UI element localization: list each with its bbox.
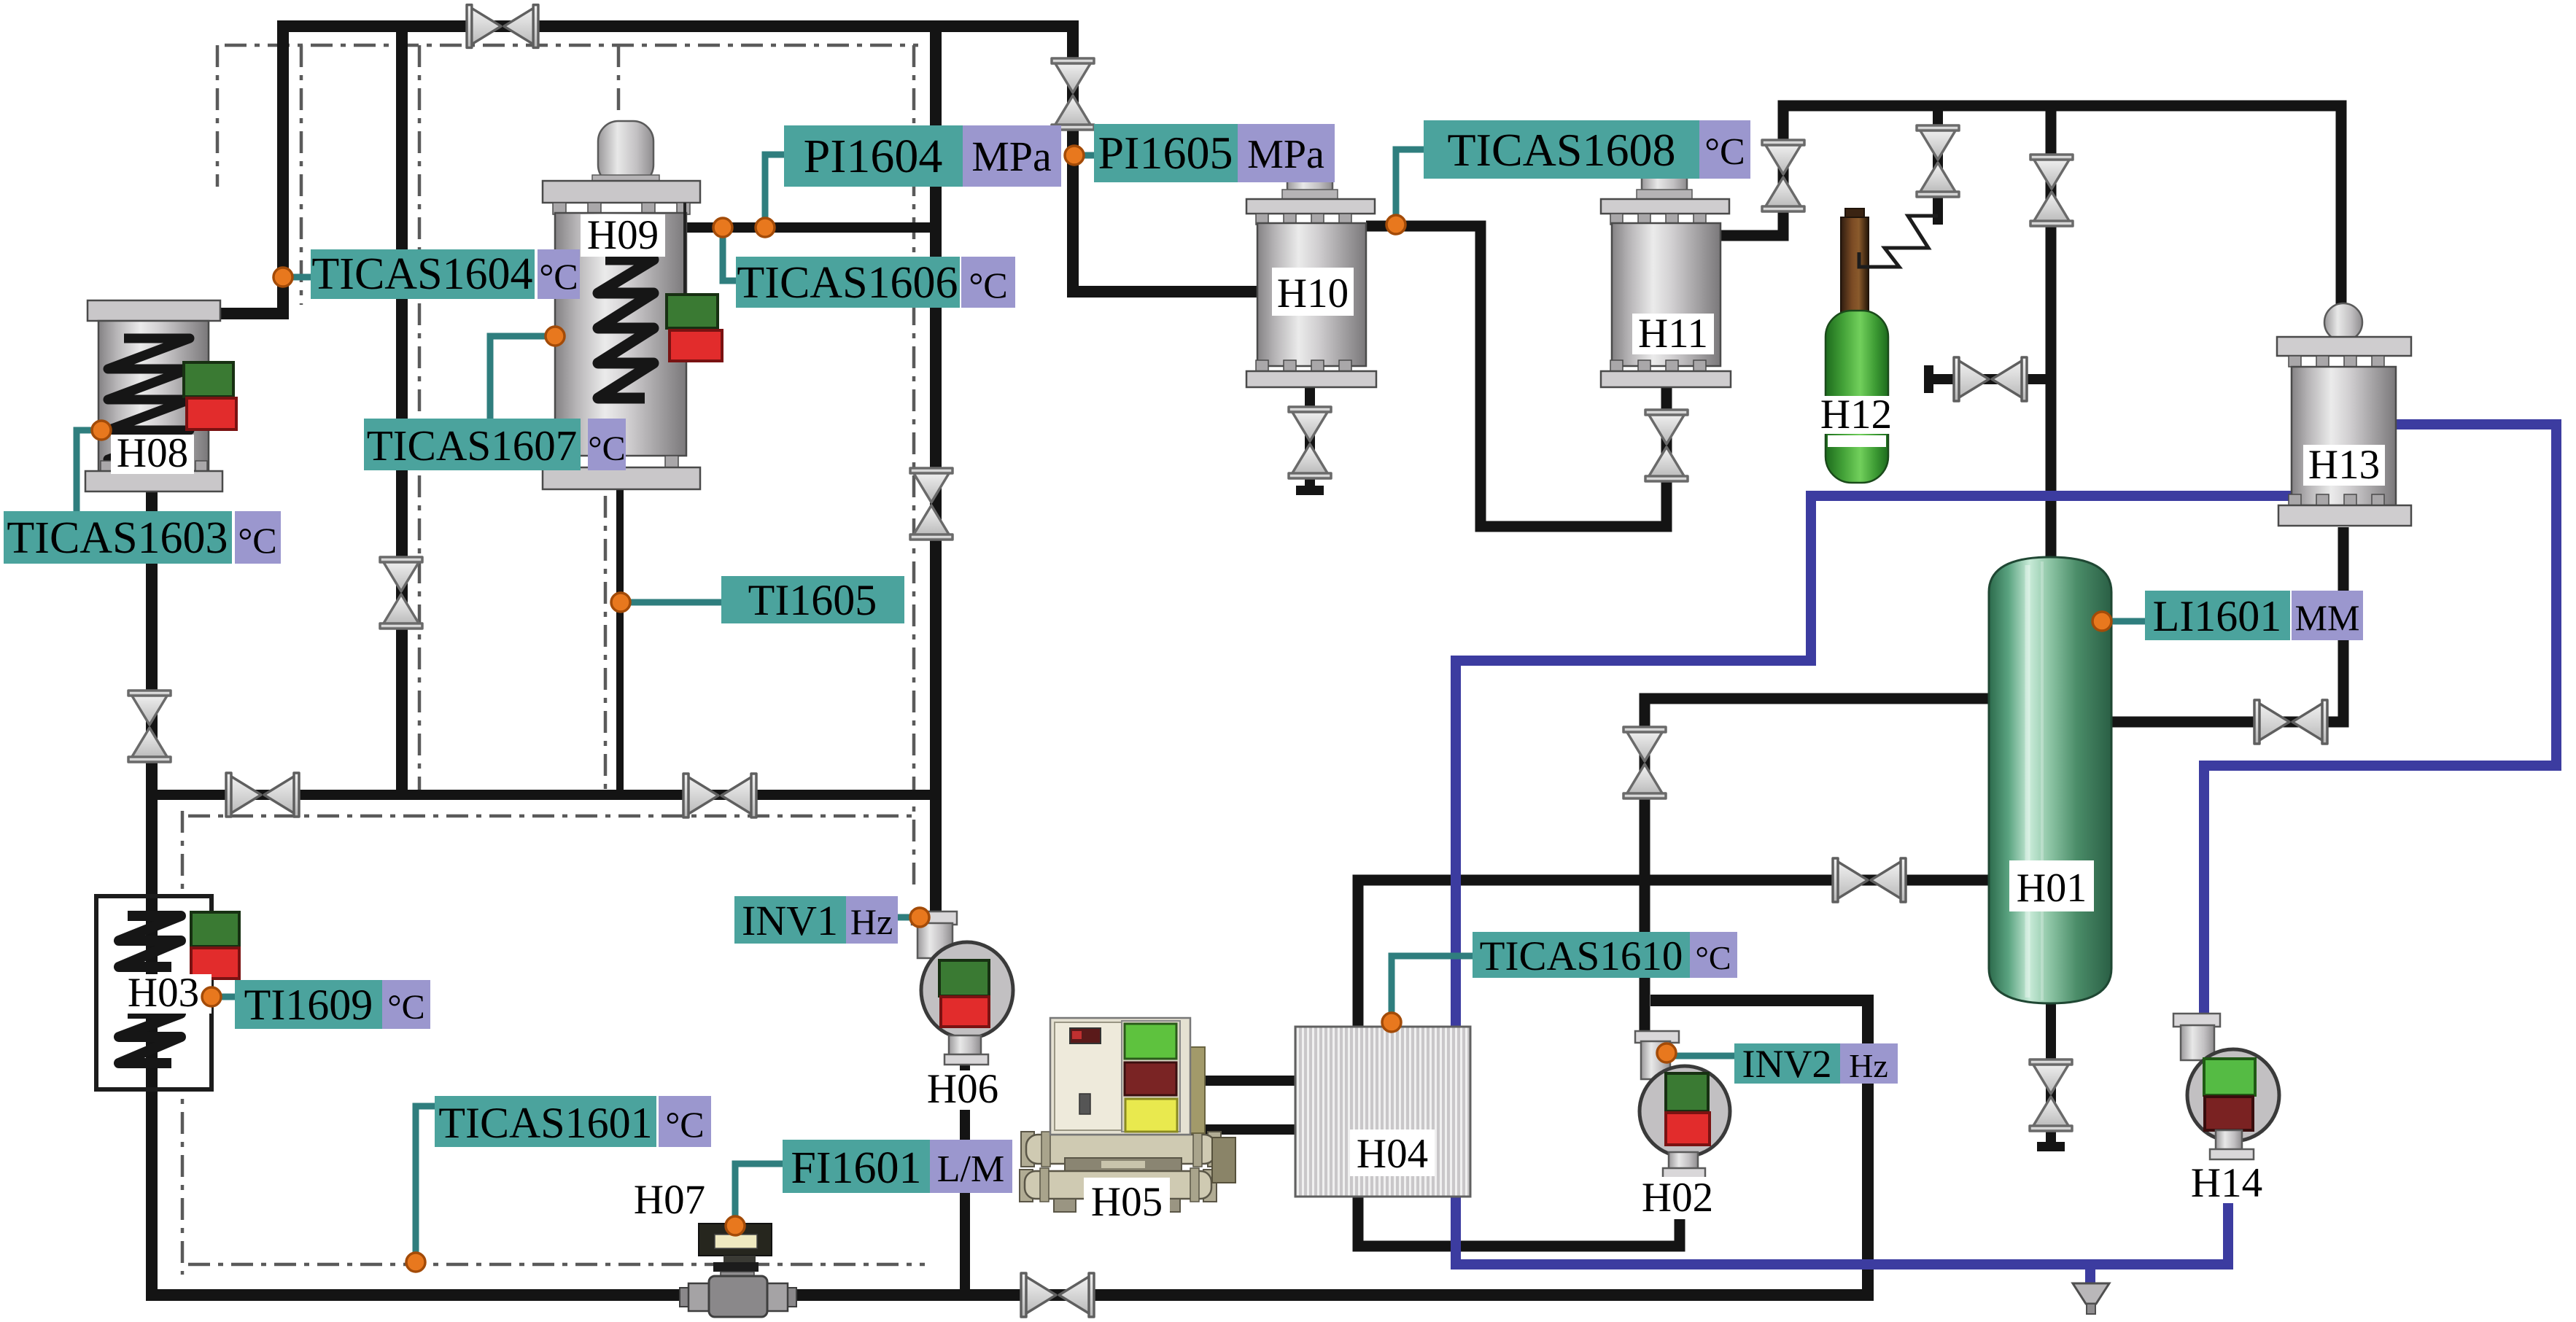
- valve H11 bottom: [1645, 410, 1688, 481]
- wire sensor lead TICAS1610: [1392, 956, 1475, 1022]
- dashed enclosure left lower edge: [181, 811, 185, 1275]
- svg-text:TI1609: TI1609: [244, 981, 373, 1029]
- svg-text:L/M: L/M: [937, 1148, 1004, 1190]
- svg-text:H11: H11: [1638, 311, 1708, 357]
- svg-text:H10: H10: [1277, 271, 1349, 316]
- label H11: [1632, 311, 1714, 357]
- svg-text:°C: °C: [969, 265, 1007, 306]
- valve on H01 upper-left feed line: [1623, 727, 1666, 798]
- label TI1609 with unit: [235, 980, 430, 1029]
- node sensor dot FI1601: [726, 1216, 745, 1235]
- svg-text:H08: H08: [117, 430, 188, 476]
- svg-text:H03: H03: [128, 970, 199, 1016]
- svg-text:H12: H12: [1820, 392, 1892, 438]
- svg-text:TICAS1607: TICAS1607: [367, 421, 577, 470]
- label PI1605 with unit: [1094, 124, 1335, 182]
- svg-text:MPa: MPa: [971, 133, 1052, 180]
- node sensor dot TICAS1607: [546, 327, 565, 346]
- vessel H10: [1246, 168, 1376, 387]
- node sensor dot TICAS1610: [1382, 1013, 1401, 1032]
- wire vertical pipe x551 from top pipe to lower header: [396, 26, 408, 795]
- dashed enclosure right edge: [912, 45, 916, 890]
- vessel H13: [2277, 303, 2411, 526]
- svg-text:TICAS1606: TICAS1606: [737, 258, 958, 308]
- svg-text:MPa: MPa: [1247, 132, 1324, 177]
- cap of H10 drain stub: [1296, 486, 1324, 495]
- valve on lower header right: [683, 774, 756, 817]
- wire H13 bottom to H01 right port: [2111, 527, 2343, 722]
- valve on H01 lower-left line: [1833, 858, 1906, 902]
- node sensor dot TICAS1604: [273, 268, 292, 287]
- label H09: [581, 212, 665, 258]
- node sensor dot TICAS1603: [92, 421, 111, 440]
- cap of H01 drain stub: [2037, 1142, 2065, 1151]
- svg-text:H14: H14: [2191, 1160, 2262, 1206]
- label PI1604 with unit: [784, 125, 1061, 187]
- svg-text:H13: H13: [2308, 442, 2380, 488]
- wire H05 to H04 upper stub: [1187, 1076, 1295, 1086]
- wire H06 outlet drop: [960, 1063, 970, 1295]
- valve on top main pipe: [467, 5, 538, 48]
- node sensor dot PI1604: [756, 218, 775, 237]
- pump H14: [2173, 1014, 2279, 1159]
- wire capped stub with valve left of H01 riser: [1931, 374, 2051, 384]
- dashed enclosure bottom edge: [188, 1263, 925, 1267]
- wire sensor lead PI1605: [1074, 152, 1095, 159]
- label H10: [1272, 268, 1354, 316]
- node sensor dot TI1605: [611, 593, 630, 612]
- wire H12 branch from manifold: [1933, 106, 1943, 225]
- wire H11 outlet and top right manifold to H13 top: [1720, 106, 2341, 309]
- wire sensor lead TI1609: [212, 994, 237, 1000]
- cap of stub near H01 riser: [1924, 365, 1933, 393]
- valve on drop to H10 inlet line: [1052, 58, 1094, 130]
- heat exchanger H04: [1295, 1027, 1470, 1197]
- label TICAS1610 with unit: [1473, 932, 1737, 979]
- wire sensor lead TICAS1606: [723, 228, 738, 281]
- svg-text:H06: H06: [927, 1066, 998, 1112]
- wire sensor lead TICAS1607: [490, 336, 555, 423]
- wire H01 bottom drain stub: [2046, 1001, 2056, 1149]
- svg-text:TICAS1604: TICAS1604: [311, 249, 532, 299]
- wire blue cooling line H13 right port to H14 inlet: [2204, 424, 2556, 1019]
- label INV1 with unit: [734, 896, 898, 944]
- label H07: [629, 1177, 710, 1223]
- pump H06: [912, 911, 1013, 1065]
- wire H01 lower-left port to H04 top riser: [1358, 880, 1990, 1027]
- wire sensor lead INV2: [1667, 1053, 1736, 1059]
- label H04: [1350, 1129, 1435, 1177]
- wire top main pipe from H08 top to H10 inlet: [212, 26, 1257, 314]
- label TICAS1608 with unit: [1424, 120, 1750, 179]
- label H08: [111, 430, 194, 476]
- dashed enclosure middle horizontal edge: [188, 814, 914, 818]
- wire H05 to H04 lower stub: [1206, 1124, 1295, 1135]
- valve H10 drain: [1289, 407, 1331, 478]
- label H14: [2185, 1160, 2268, 1206]
- wire H04 bottom to H02 outlet: [1358, 1165, 1680, 1246]
- dashed line beside vertical pipe x551: [418, 45, 422, 790]
- wire blue cooling return H14 outlet to H13 left port: [1456, 496, 2292, 1264]
- svg-text:TICAS1601: TICAS1601: [438, 1099, 652, 1147]
- label H01: [2009, 860, 2094, 911]
- wire H09 bottom pipe: [616, 487, 624, 795]
- wire sensor lead TICAS1608: [1396, 149, 1426, 225]
- valve below H08: [128, 691, 171, 762]
- label TI1605: [721, 576, 904, 624]
- wire vertical pipe x1283 from top pipe to H06 inlet: [930, 26, 942, 916]
- label H06: [920, 1066, 1005, 1112]
- svg-text:Hz: Hz: [1849, 1047, 1888, 1084]
- svg-text:H05: H05: [1091, 1179, 1163, 1225]
- column H01: [1989, 557, 2111, 1003]
- wire H01 upper-left port to H02 inlet: [1645, 699, 1990, 1035]
- flexible hose to H12: [1859, 216, 1938, 267]
- svg-text:H07: H07: [634, 1177, 705, 1223]
- valve on H11 outlet riser: [1762, 140, 1804, 211]
- label TICAS1606 with unit: [736, 257, 1015, 308]
- wire sensor lead TICAS1603: [77, 430, 101, 514]
- dashed line beside pipe to H08: [300, 45, 303, 305]
- node sensor dot TICAS1608: [1386, 215, 1405, 234]
- label TICAS1604 with unit: [311, 249, 580, 299]
- label TICAS1601 with unit: [435, 1096, 711, 1147]
- dashed enclosure top edge: [225, 44, 918, 47]
- vessel H09: [543, 121, 722, 489]
- wire left column H08 to bottom main pipe and bypass riser to H02 inlet tee: [152, 487, 1868, 1295]
- svg-text:MM: MM: [2295, 597, 2360, 638]
- valve on H01 top riser: [2030, 155, 2073, 226]
- label TICAS1607 with unit: [364, 419, 626, 470]
- dashed enclosure left upper edge: [216, 45, 220, 187]
- node sensor dot TICAS1606: [713, 218, 732, 237]
- pump H02: [1635, 1031, 1730, 1178]
- node sensor dot TI1609: [202, 987, 221, 1006]
- node sensor dot INV2: [1657, 1043, 1676, 1062]
- label H05: [1084, 1178, 1170, 1225]
- label H12: [1814, 392, 1898, 438]
- wire sensor lead PI1604: [765, 155, 786, 228]
- wire H10 outlet to H11 bottom: [1366, 226, 1667, 526]
- svg-text:°C: °C: [588, 429, 625, 468]
- svg-text:TI1605: TI1605: [748, 576, 877, 624]
- wire H01 top riser from manifold: [2046, 106, 2057, 561]
- label H02: [1640, 1175, 1715, 1221]
- label LI1601 with unit: [2145, 591, 2363, 640]
- wire blue drain stub to funnel: [2085, 1264, 2095, 1285]
- wire sensor lead INV1: [896, 914, 920, 921]
- valve on lower header left: [226, 773, 299, 817]
- node sensor dot TICAS1601: [406, 1253, 425, 1272]
- svg-text:FI1601: FI1601: [791, 1143, 921, 1193]
- wire sensor lead TI1605: [621, 599, 723, 606]
- svg-text:TICAS1608: TICAS1608: [1448, 124, 1676, 176]
- svg-text:TICAS1603: TICAS1603: [7, 513, 228, 563]
- wire H10 bottom drain stub: [1305, 388, 1315, 493]
- svg-text:°C: °C: [1695, 939, 1731, 976]
- valve on capped stub: [1954, 357, 2027, 401]
- wire H09 right outlet to x1283: [686, 222, 936, 233]
- label INV2 with unit: [1734, 1042, 1898, 1086]
- gas cylinder H12: [1826, 209, 1888, 483]
- valve on H12 branch: [1917, 125, 1959, 197]
- chiller unit H05: [1020, 1018, 1235, 1212]
- wire lower header y1090: [152, 790, 936, 800]
- metering valve H07: [680, 1224, 796, 1317]
- label TICAS1603 with unit: [4, 511, 281, 564]
- valve on vertical pipe x551: [380, 557, 422, 629]
- node sensor dot INV1: [910, 908, 929, 927]
- node sensor dot LI1601: [2092, 612, 2111, 631]
- valve on H01 bottom drain: [2030, 1059, 2072, 1131]
- svg-text:H09: H09: [587, 212, 659, 258]
- svg-text:H01: H01: [2017, 866, 2087, 911]
- funnel drain symbol: [2073, 1283, 2109, 1314]
- svg-text:TICAS1610: TICAS1610: [1480, 933, 1683, 979]
- svg-text:°C: °C: [665, 1104, 704, 1145]
- wire sensor lead TICAS1601: [416, 1106, 438, 1262]
- valve between H01 right port and H13 bottom line: [2254, 700, 2327, 744]
- wire sensor lead FI1601: [735, 1164, 785, 1226]
- svg-text:H04: H04: [1357, 1131, 1428, 1177]
- wire sensor lead LI1601: [2102, 618, 2147, 625]
- valve on vertical pipe x1283: [910, 468, 953, 540]
- heat exchanger H03: [96, 896, 239, 1089]
- svg-text:Hz: Hz: [850, 901, 893, 942]
- vessel H08: [85, 300, 236, 491]
- svg-text:°C: °C: [238, 520, 276, 561]
- dashed line beside H09 upper: [617, 45, 621, 115]
- svg-text:INV1: INV1: [742, 897, 838, 944]
- svg-text:INV2: INV2: [1742, 1042, 1832, 1086]
- svg-text:LI1601: LI1601: [2153, 592, 2282, 640]
- label H03: [115, 970, 212, 1016]
- label FI1601 with unit: [783, 1140, 1012, 1193]
- node sensor dot PI1605: [1065, 146, 1084, 165]
- wire sensor lead TICAS1604: [283, 274, 314, 281]
- svg-text:°C: °C: [539, 256, 578, 297]
- vessel H11: [1601, 168, 1731, 387]
- label H13: [2303, 442, 2385, 488]
- svg-text:PI1604: PI1604: [804, 130, 943, 183]
- valve on bottom main pipe: [1021, 1273, 1094, 1317]
- svg-text:°C: °C: [387, 988, 424, 1027]
- dashed line beside H09 lower: [604, 496, 608, 790]
- svg-text:H02: H02: [1642, 1175, 1713, 1221]
- svg-text:PI1605: PI1605: [1098, 127, 1233, 179]
- svg-text:°C: °C: [1704, 131, 1745, 173]
